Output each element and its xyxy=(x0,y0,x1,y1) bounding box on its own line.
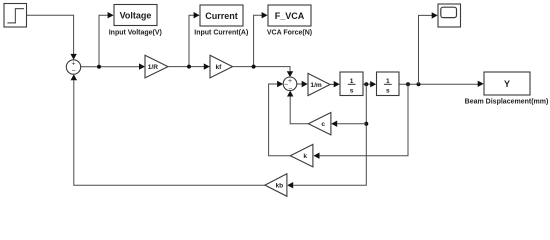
svg-text:1: 1 xyxy=(386,78,390,85)
svg-text:Input Voltage(V): Input Voltage(V) xyxy=(109,30,162,37)
svg-text:+: + xyxy=(72,60,76,67)
svg-text:Current: Current xyxy=(205,11,238,21)
svg-text:1: 1 xyxy=(350,78,354,85)
svg-text:kb: kb xyxy=(275,183,283,190)
svg-text:s: s xyxy=(350,87,354,94)
svg-text:k: k xyxy=(303,153,307,160)
svg-text:Beam Displacement(mm): Beam Displacement(mm) xyxy=(465,99,549,106)
svg-text:F_VCA: F_VCA xyxy=(275,11,305,21)
svg-text:Y: Y xyxy=(504,79,510,89)
svg-text:VCA Force(N): VCA Force(N) xyxy=(267,30,312,37)
svg-text:1/R: 1/R xyxy=(148,64,158,71)
svg-text:−: − xyxy=(72,68,76,75)
svg-text:c: c xyxy=(321,121,325,128)
svg-text:Voltage: Voltage xyxy=(120,10,152,20)
svg-text:kf: kf xyxy=(215,64,222,71)
svg-text:1/m: 1/m xyxy=(310,82,321,89)
svg-text:+: + xyxy=(288,78,292,85)
svg-text:s: s xyxy=(386,87,390,94)
svg-text:−: − xyxy=(288,86,292,93)
svg-text:Input Current(A): Input Current(A) xyxy=(194,30,248,37)
